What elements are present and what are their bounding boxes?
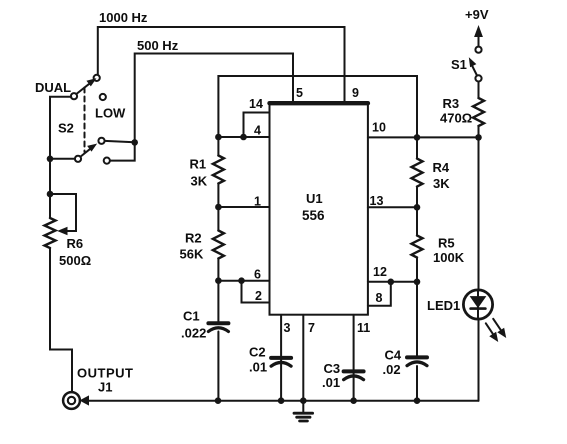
wire pin 11 column (353, 315, 355, 401)
label C2 .01 (249, 360, 267, 375)
wire pin 3 column (280, 315, 282, 401)
node pin7 bottom junction (300, 397, 307, 404)
svg-text:R2: R2 (185, 231, 202, 246)
svg-text:1000 Hz: 1000 Hz (99, 10, 148, 25)
svg-text:2: 2 (255, 289, 262, 303)
wire 500 Hz net (135, 54, 293, 143)
label OUTPUT (77, 366, 133, 381)
node 500Hz junction (131, 139, 138, 146)
node pin1 junction (215, 204, 222, 211)
node pin10 R4 junction (414, 134, 421, 141)
pin 12 label (373, 265, 387, 279)
svg-text:470Ω: 470Ω (440, 111, 472, 126)
node pin6 left junction (215, 277, 222, 284)
wire pin 7 column (302, 315, 304, 401)
wire S2 node down to lower contact (110, 142, 135, 160)
label +9V (465, 7, 489, 22)
label C4 (385, 348, 402, 363)
wire pin 4 line (218, 136, 269, 138)
label U1 (306, 191, 323, 206)
capacitor C4 (407, 357, 427, 365)
label 500 ohm (59, 253, 91, 268)
svg-text:S2: S2 (58, 121, 74, 136)
pin 13 label (370, 194, 384, 208)
wire pin 14 step (244, 113, 270, 138)
wire bottom ground bus (87, 400, 479, 402)
pin 11 label (357, 321, 370, 335)
svg-text:10: 10 (372, 121, 386, 135)
node pin12 pin8 junction (388, 279, 395, 286)
node pin4 left junction (215, 134, 222, 141)
wire R6 to jack J1 (50, 248, 72, 392)
pin 3 label (284, 321, 291, 335)
svg-text:.022: .022 (181, 326, 206, 341)
svg-text:556: 556 (302, 208, 325, 223)
svg-text:12: 12 (373, 265, 387, 279)
LED light arrows (486, 319, 506, 341)
svg-text:7: 7 (308, 321, 315, 335)
node pin14 step junction (240, 134, 247, 141)
wire S2 commons to left bus (50, 97, 75, 194)
label C3 .01 (322, 375, 340, 390)
node pin11 bottom junction (350, 397, 357, 404)
label 1000 Hz (99, 10, 148, 25)
svg-text:5: 5 (296, 86, 303, 100)
svg-text:500Ω: 500Ω (59, 253, 91, 268)
resistor R1 (213, 156, 224, 184)
resistor R5 (412, 236, 423, 258)
label R5 (438, 236, 455, 251)
label S1 (451, 57, 467, 72)
label LOW (95, 106, 126, 121)
wire pin 1 line (218, 206, 269, 208)
svg-text:14: 14 (249, 97, 263, 111)
pin 10 label (372, 121, 386, 135)
svg-text:LOW: LOW (95, 106, 126, 121)
pin 2 label (255, 289, 262, 303)
label R2 56K (180, 247, 204, 262)
wire pin 13 line (368, 206, 417, 208)
svg-text:OUTPUT: OUTPUT (77, 366, 133, 381)
label R6 (67, 236, 84, 251)
svg-text:C3: C3 (324, 361, 341, 376)
svg-text:11: 11 (357, 321, 370, 335)
resistor R2 (213, 231, 224, 259)
capacitor C2 (271, 358, 291, 366)
label R1 3K (191, 174, 208, 189)
label R3 (443, 96, 460, 111)
svg-text:C4: C4 (385, 348, 402, 363)
node S2 common junction (47, 156, 54, 163)
label C2 (249, 345, 266, 360)
label S2 (58, 121, 74, 136)
jack J1 (63, 392, 88, 409)
node pin2 step junction (238, 277, 245, 284)
svg-text:S1: S1 (451, 57, 467, 72)
pin 9 label (352, 86, 359, 100)
wire pin 12 line (368, 281, 417, 283)
label R4 3K (433, 176, 450, 191)
svg-text:3: 3 (284, 321, 291, 335)
supply +9V arrow (475, 27, 482, 47)
wire R4 R5 column (416, 137, 418, 400)
wire pin 10 line (368, 136, 479, 138)
svg-text:C1: C1 (183, 309, 200, 324)
wire S1 to R3 (478, 82, 480, 99)
wire 1000 Hz net (98, 27, 345, 103)
svg-text:100K: 100K (433, 250, 465, 265)
capacitor C3 (344, 371, 364, 379)
label 556 (302, 208, 325, 223)
wire R3 to pin10 line (478, 126, 480, 137)
svg-text:R1: R1 (190, 157, 207, 172)
label C4 .02 (383, 362, 401, 377)
node pin13 junction (414, 204, 421, 211)
switch S2 mechanical link (dashed) (84, 88, 86, 153)
pin 1 label (254, 195, 261, 209)
svg-text:8: 8 (376, 291, 383, 305)
resistor R4 (412, 159, 423, 187)
pin 8 label (376, 291, 383, 305)
switch S2 lower pole (75, 138, 110, 164)
svg-text:+9V: +9V (465, 7, 489, 22)
wire LED to bottom bus (478, 319, 480, 401)
wire top bus pin4 to pin10 (218, 76, 417, 137)
pin 14 label (249, 97, 263, 111)
svg-text:R3: R3 (443, 96, 460, 111)
svg-text:R6: R6 (67, 236, 84, 251)
label C1 (183, 309, 200, 324)
svg-text:3K: 3K (191, 174, 208, 189)
resistor R3 (473, 98, 484, 126)
wire right column to LED (478, 137, 480, 290)
node pin12 R5 junction (414, 279, 421, 286)
pin 6 label (254, 268, 261, 282)
svg-text:4: 4 (254, 124, 261, 138)
svg-text:C2: C2 (249, 345, 266, 360)
svg-text:1: 1 (254, 195, 261, 209)
svg-text:R5: R5 (438, 236, 455, 251)
label C3 (324, 361, 341, 376)
svg-text:56K: 56K (180, 247, 204, 262)
label R5 100K (433, 250, 465, 265)
label R3 470ohm (440, 111, 472, 126)
wire left bus (217, 137, 219, 401)
label DUAL (35, 80, 71, 95)
svg-text:500 Hz: 500 Hz (137, 38, 179, 53)
switch S2 upper pole (71, 75, 106, 100)
wire S2 upper contact to 500Hz node (105, 141, 135, 142)
pin 5 label (296, 86, 303, 100)
label R1 (190, 157, 207, 172)
wire pin 6 line (218, 280, 269, 282)
potentiometer R6 (45, 194, 77, 248)
switch S1 (470, 47, 482, 82)
svg-text:13: 13 (370, 194, 384, 208)
IC U1 556 (270, 103, 368, 315)
svg-text:.01: .01 (322, 375, 340, 390)
node C1 bottom junction (215, 397, 222, 404)
svg-text:9: 9 (352, 86, 359, 100)
label J1 (98, 380, 112, 395)
LED1 (463, 290, 492, 319)
svg-text:3K: 3K (433, 176, 450, 191)
svg-text:.01: .01 (249, 360, 267, 375)
capacitor C1 (208, 323, 228, 331)
pin 4 label (254, 124, 261, 138)
node C4 bottom junction (414, 397, 421, 404)
label R4 (433, 160, 450, 175)
label LED1 (427, 298, 460, 313)
svg-text:.02: .02 (383, 362, 401, 377)
label 500 Hz (137, 38, 179, 53)
svg-text:6: 6 (254, 268, 261, 282)
ground (294, 401, 313, 421)
pin 7 label (308, 321, 315, 335)
node R6 top junction (47, 191, 54, 198)
svg-text:R4: R4 (433, 160, 450, 175)
label R2 (185, 231, 202, 246)
node pin3 bottom junction (278, 397, 285, 404)
svg-text:DUAL: DUAL (35, 80, 71, 95)
svg-text:LED1: LED1 (427, 298, 460, 313)
wire pin 2 step (242, 281, 270, 303)
node pin10 R3 junction (475, 134, 482, 141)
svg-text:U1: U1 (306, 191, 323, 206)
label C1 .022 (181, 326, 206, 341)
svg-text:J1: J1 (98, 380, 112, 395)
wire pin 8 step (368, 282, 391, 306)
